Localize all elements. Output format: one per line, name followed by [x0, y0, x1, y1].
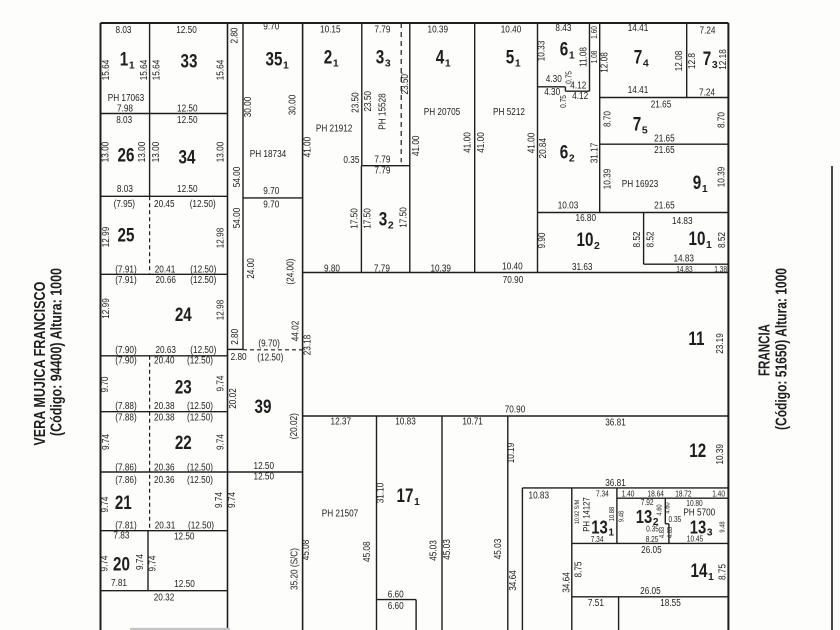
svg-text:13.00: 13.00	[137, 141, 148, 162]
svg-text:20.45: 20.45	[154, 199, 175, 210]
parcels 13 bottom / 14 top line	[572, 542, 729, 544]
svg-text:5: 5	[642, 126, 648, 137]
svg-text:(12.50): (12.50)	[187, 412, 213, 423]
svg-text:20.32: 20.32	[154, 592, 175, 603]
svg-text:10.92 S/M: 10.92 S/M	[574, 500, 581, 524]
svg-text:(12.50): (12.50)	[187, 475, 213, 486]
svg-text:10.03: 10.03	[558, 200, 579, 211]
parcel 6_1 zigzag 0.75 jog	[564, 87, 566, 91]
svg-text:18.55: 18.55	[660, 598, 681, 609]
svg-text:(9.70): (9.70)	[258, 338, 279, 349]
svg-text:12.08: 12.08	[674, 50, 685, 71]
svg-text:21: 21	[115, 493, 132, 514]
parcel 6_1 right edge	[589, 23, 591, 91]
svg-text:(20.02): (20.02)	[289, 413, 300, 439]
svg-text:10.71: 10.71	[462, 416, 483, 427]
svg-text:11: 11	[688, 329, 704, 350]
svg-text:17: 17	[397, 486, 414, 507]
svg-text:(12.50): (12.50)	[190, 275, 216, 286]
svg-text:13.00: 13.00	[216, 141, 227, 162]
parcel 22	[175, 433, 192, 454]
svg-text:14.41: 14.41	[628, 85, 649, 96]
parcel 13_2/13_3 boundary upper	[664, 498, 666, 524]
parcel 10_1 left edge	[643, 213, 645, 265]
svg-text:21.65: 21.65	[654, 134, 675, 145]
parcel 3_3	[376, 48, 391, 70]
svg-text:10.39: 10.39	[717, 166, 728, 187]
svg-text:0.75: 0.75	[559, 95, 568, 108]
svg-text:10.15: 10.15	[320, 25, 341, 36]
svg-text:39: 39	[255, 397, 272, 418]
parcel 34	[179, 148, 196, 169]
parcel 6_1	[560, 40, 575, 62]
parcels 7_4,7_3 bottom line	[600, 97, 729, 99]
svg-text:1: 1	[414, 497, 420, 508]
vertical line x=227.5 column boundary	[227, 23, 229, 630]
svg-text:1: 1	[333, 59, 339, 70]
svg-text:VERA MUJICA FRANCISCO: VERA MUJICA FRANCISCO	[32, 282, 49, 446]
svg-text:9: 9	[693, 173, 702, 194]
svg-text:0.35: 0.35	[343, 155, 359, 166]
notch 6.60 top line	[377, 599, 417, 601]
boundary line parcels 22/21 and 39 bottom	[101, 471, 303, 473]
parcel 6_2	[560, 143, 575, 165]
svg-text:8.03: 8.03	[116, 115, 132, 126]
svg-text:35: 35	[266, 50, 283, 71]
svg-text:4.12: 4.12	[572, 91, 588, 102]
svg-text:35.20 (S/C): 35.20 (S/C)	[290, 548, 301, 590]
svg-text:14.83: 14.83	[672, 216, 693, 227]
svg-text:12.50: 12.50	[174, 532, 195, 543]
svg-text:PH 21507: PH 21507	[322, 509, 359, 520]
svg-text:10.80: 10.80	[686, 499, 703, 508]
vertical line parcels 1/33 col solid	[149, 23, 151, 196]
svg-text:17.50: 17.50	[398, 207, 409, 228]
boundary row line parcel 24 / 23	[101, 355, 228, 357]
svg-text:20.02: 20.02	[228, 388, 239, 409]
svg-text:20.36: 20.36	[154, 475, 175, 486]
parcel 33	[181, 52, 198, 73]
svg-text:8.03: 8.03	[116, 25, 132, 36]
svg-text:4: 4	[643, 59, 649, 70]
svg-text:12.50: 12.50	[177, 115, 198, 126]
svg-text:1: 1	[129, 61, 135, 72]
svg-text:26.05: 26.05	[640, 586, 661, 597]
svg-text:7.79: 7.79	[374, 154, 390, 165]
svg-text:23.50: 23.50	[363, 91, 374, 112]
parcel 7_4/7_3 boundary	[686, 23, 688, 98]
svg-text:34.64: 34.64	[561, 572, 572, 593]
block line 70.90 / parcel 12 top	[303, 415, 729, 417]
svg-text:PH 16923: PH 16923	[622, 179, 659, 190]
parcel 9_1	[693, 173, 708, 195]
svg-text:2: 2	[569, 154, 575, 165]
svg-text:3: 3	[712, 60, 718, 71]
svg-text:10.39: 10.39	[715, 444, 726, 465]
svg-text:12.98: 12.98	[216, 227, 227, 248]
svg-text:10.83: 10.83	[529, 490, 550, 501]
parcel 3_2 left edge	[360, 166, 362, 273]
parcel 11	[688, 329, 704, 350]
svg-text:1.40: 1.40	[622, 490, 635, 499]
parcel 25	[118, 226, 135, 247]
svg-text:12.50: 12.50	[177, 103, 198, 114]
svg-text:41.00: 41.00	[411, 135, 422, 156]
svg-text:5: 5	[506, 48, 515, 69]
svg-text:10.40: 10.40	[502, 262, 523, 273]
svg-text:4.60: 4.60	[664, 502, 671, 513]
svg-text:9.74: 9.74	[227, 492, 238, 508]
svg-text:10.19: 10.19	[506, 442, 517, 463]
svg-text:8.70: 8.70	[603, 111, 614, 127]
svg-text:(12.50): (12.50)	[190, 345, 216, 356]
svg-text:PH 20705: PH 20705	[424, 107, 461, 118]
svg-text:41.00: 41.00	[476, 132, 487, 153]
svg-text:30.00: 30.00	[243, 96, 254, 117]
svg-text:31.63: 31.63	[572, 262, 593, 273]
parcel 7_3	[703, 49, 718, 71]
svg-text:23.50: 23.50	[351, 92, 362, 113]
svg-text:10.88: 10.88	[609, 507, 616, 521]
svg-text:(7.90): (7.90)	[115, 356, 136, 367]
parcel 26	[118, 146, 135, 167]
svg-text:8.03: 8.03	[117, 184, 133, 195]
svg-text:PH 21912: PH 21912	[316, 123, 353, 134]
boundary row line parcel 21 / 20	[101, 530, 228, 532]
svg-text:16.80: 16.80	[576, 213, 597, 224]
parcel 13_3	[690, 517, 713, 539]
parcel 3_2	[379, 210, 394, 232]
svg-text:8.25: 8.25	[646, 535, 659, 544]
svg-text:4: 4	[436, 48, 445, 69]
parcel 12 bottom line	[522, 487, 728, 489]
svg-text:8.52: 8.52	[646, 231, 657, 247]
dashed line 23.50' parcel 3_3	[400, 23, 402, 162]
svg-text:(7.86): (7.86)	[115, 475, 136, 486]
svg-text:2: 2	[653, 517, 659, 528]
svg-text:10.39: 10.39	[603, 168, 614, 189]
parcel 2/3 boundary upper	[361, 23, 363, 166]
svg-text:8.52: 8.52	[632, 231, 643, 247]
svg-text:70.90: 70.90	[505, 405, 526, 416]
svg-text:25: 25	[118, 226, 135, 247]
svg-text:7: 7	[703, 49, 712, 70]
parcel 6_1 zigzag 4.12 segment	[565, 90, 589, 92]
svg-text:2: 2	[388, 221, 394, 232]
parcel 20	[113, 555, 130, 576]
svg-text:13: 13	[636, 506, 653, 527]
svg-text:4.83: 4.83	[659, 527, 666, 538]
svg-text:7.81: 7.81	[111, 578, 127, 589]
svg-text:12.99: 12.99	[101, 298, 112, 319]
boundary parcel 20 bottom	[101, 590, 228, 592]
svg-text:2.80: 2.80	[231, 352, 247, 363]
svg-text:1.40: 1.40	[712, 490, 725, 499]
svg-text:1.60: 1.60	[590, 26, 599, 39]
svg-text:(12.50): (12.50)	[187, 462, 213, 473]
svg-text:7.24: 7.24	[699, 87, 715, 98]
svg-text:20.31: 20.31	[155, 521, 176, 532]
vertical dashed line parcel 25	[149, 196, 151, 274]
svg-text:18.72: 18.72	[675, 490, 692, 499]
svg-text:14: 14	[691, 561, 708, 582]
svg-text:15.64: 15.64	[152, 59, 163, 80]
svg-text:10.33: 10.33	[537, 40, 548, 61]
boundary row line parcel 25 / 24	[101, 273, 228, 275]
svg-text:6: 6	[560, 143, 569, 164]
parcel 3/4 boundary	[409, 23, 411, 273]
svg-text:6.60: 6.60	[388, 601, 404, 612]
svg-text:36.81: 36.81	[605, 478, 626, 489]
svg-text:20.38: 20.38	[154, 401, 175, 412]
svg-text:12.37: 12.37	[331, 416, 352, 427]
svg-text:10.39: 10.39	[428, 25, 449, 36]
svg-text:7.34: 7.34	[596, 490, 609, 499]
svg-text:33: 33	[181, 52, 198, 73]
svg-text:1: 1	[445, 59, 451, 70]
svg-text:2: 2	[594, 241, 600, 252]
svg-text:(7.90): (7.90)	[115, 345, 136, 356]
outer border right (Francia side)	[727, 23, 729, 630]
svg-text:7.51: 7.51	[588, 598, 604, 609]
svg-text:2.80: 2.80	[229, 27, 240, 43]
vertical dashed line parcels 23,22,21	[149, 356, 151, 531]
svg-text:12.8: 12.8	[687, 53, 698, 69]
parcel 6_1 zigzag 4.30 segment	[538, 86, 566, 88]
svg-text:41.00: 41.00	[526, 132, 537, 153]
parcel 16 left edge	[507, 416, 509, 630]
svg-text:3: 3	[376, 48, 385, 69]
svg-text:4.83: 4.83	[667, 527, 674, 538]
svg-text:PH 5212: PH 5212	[493, 107, 525, 118]
svg-text:8.75: 8.75	[717, 564, 728, 580]
svg-text:10.83: 10.83	[395, 416, 416, 427]
svg-text:FRANCIA: FRANCIA	[757, 324, 774, 376]
svg-text:22: 22	[175, 433, 192, 454]
svg-text:(12.50): (12.50)	[190, 199, 216, 210]
svg-text:7.98: 7.98	[117, 103, 133, 114]
parcel 21	[115, 493, 132, 514]
dashed line (9.70) parcel 39 top	[243, 349, 303, 351]
svg-text:15.64: 15.64	[101, 59, 112, 80]
svg-text:20.63: 20.63	[155, 345, 176, 356]
svg-text:12.98: 12.98	[216, 299, 227, 320]
parcel 13_2/13_3 boundary lower	[668, 524, 670, 544]
parcel 13_1/13_2 boundary	[616, 488, 618, 544]
svg-text:14.41: 14.41	[628, 23, 649, 34]
svg-text:7.79: 7.79	[374, 25, 390, 36]
svg-text:9.74: 9.74	[214, 492, 225, 508]
parcels 6_2, 9_1 bottom line	[538, 212, 729, 214]
svg-text:8.43: 8.43	[555, 23, 571, 34]
boundary row line parcel 23 / 22	[101, 411, 228, 413]
svg-text:4.30: 4.30	[546, 74, 562, 85]
svg-text:20.38: 20.38	[154, 412, 175, 423]
parcel 10_1	[689, 229, 712, 251]
svg-text:3: 3	[379, 210, 388, 231]
parcel 39	[255, 397, 272, 418]
svg-text:12.99: 12.99	[101, 226, 112, 247]
svg-text:(7.86): (7.86)	[115, 462, 136, 473]
svg-text:13.00: 13.00	[151, 141, 162, 162]
svg-text:1.08: 1.08	[590, 50, 599, 63]
svg-text:7.79: 7.79	[374, 263, 390, 274]
svg-text:54.00: 54.00	[232, 166, 243, 187]
svg-text:1: 1	[569, 51, 575, 62]
parcel 5/6 boundary	[537, 23, 539, 273]
svg-text:(7.91): (7.91)	[115, 264, 136, 275]
vertical line parcel 20 right edge	[147, 531, 149, 591]
svg-text:17.50: 17.50	[350, 208, 361, 229]
svg-text:(7.88): (7.88)	[115, 412, 136, 423]
svg-text:14.83: 14.83	[673, 253, 694, 264]
svg-text:13: 13	[591, 517, 608, 538]
svg-text:1: 1	[708, 572, 714, 583]
svg-text:(7.91): (7.91)	[115, 275, 136, 286]
svg-text:45.08: 45.08	[362, 541, 373, 562]
outer border top	[101, 22, 729, 24]
svg-text:36.81: 36.81	[605, 417, 626, 428]
svg-text:30.00: 30.00	[288, 94, 299, 115]
svg-text:20: 20	[113, 555, 130, 576]
parcel 13_2	[636, 506, 659, 528]
svg-text:0.35: 0.35	[669, 515, 682, 524]
svg-text:12.08: 12.08	[600, 52, 611, 73]
svg-text:3: 3	[707, 527, 713, 538]
svg-text:(7.88): (7.88)	[115, 401, 136, 412]
svg-text:9.90: 9.90	[537, 232, 548, 248]
strip 1.60 right edge / 6_2 right edge	[599, 23, 601, 213]
svg-text:(12.50): (12.50)	[187, 356, 213, 367]
svg-text:21.65: 21.65	[651, 99, 672, 110]
svg-text:20.66: 20.66	[155, 275, 176, 286]
parcel 12	[689, 441, 706, 462]
parcel 24	[175, 305, 192, 326]
svg-text:2.80: 2.80	[230, 328, 241, 344]
svg-text:34.64: 34.64	[508, 570, 519, 591]
svg-text:11.08: 11.08	[579, 47, 590, 67]
svg-text:(Código: 94400) Altura: 1000: (Código: 94400) Altura: 1000	[49, 268, 66, 436]
boundary row line parcels 26,34 / 25	[101, 195, 228, 197]
parcel 3_2 top line 7.79	[361, 165, 409, 167]
svg-text:1: 1	[702, 184, 708, 195]
svg-text:4.12: 4.12	[570, 81, 586, 92]
svg-text:(12.50): (12.50)	[190, 264, 216, 275]
parcel 5_1	[506, 48, 521, 70]
svg-text:45.03: 45.03	[493, 538, 504, 559]
bottom parcels 7.51/18.55 divider	[618, 597, 620, 630]
svg-text:7.79: 7.79	[374, 166, 390, 177]
svg-text:3: 3	[385, 59, 391, 70]
svg-text:31.17: 31.17	[590, 142, 601, 163]
svg-text:15.64: 15.64	[139, 59, 150, 80]
svg-text:17.50: 17.50	[363, 208, 374, 229]
svg-text:8.70: 8.70	[717, 112, 728, 128]
svg-text:26: 26	[118, 146, 135, 167]
svg-text:21.65: 21.65	[654, 200, 675, 211]
svg-text:1: 1	[608, 527, 614, 538]
svg-text:23: 23	[175, 378, 192, 399]
svg-text:8.52: 8.52	[717, 232, 728, 248]
svg-text:1.38: 1.38	[714, 265, 727, 274]
svg-text:6.60: 6.60	[388, 589, 404, 600]
parcels 13_2,13_3 top line	[617, 497, 729, 499]
block south line 70.90	[303, 272, 729, 274]
boundary row line parcels 1,33 / 26,34	[101, 113, 228, 115]
parcel 17 right edge	[441, 416, 443, 630]
svg-text:9.74: 9.74	[100, 555, 111, 571]
parcel 35 bottom line 9.70	[243, 197, 303, 199]
svg-text:4.60: 4.60	[657, 504, 664, 515]
vertical line strip 2.80 right edge	[242, 23, 244, 349]
vertical line x=571.8 parcel 13/14 left	[571, 488, 573, 630]
parcel 13_2/13_3 jog 0.35	[665, 523, 669, 525]
parcel 2_1	[324, 48, 339, 70]
svg-text:9.48: 9.48	[619, 511, 626, 522]
svg-text:23.19: 23.19	[715, 333, 726, 354]
parcel 14_1	[691, 561, 714, 583]
parcel 4/5 boundary	[474, 23, 476, 273]
svg-text:10: 10	[577, 230, 594, 251]
svg-text:9.48: 9.48	[719, 521, 726, 532]
svg-text:9.80: 9.80	[324, 263, 340, 274]
svg-text:44.02: 44.02	[291, 320, 302, 341]
svg-text:9.74: 9.74	[216, 434, 227, 450]
scan page edge right	[831, 166, 833, 630]
svg-text:9.74: 9.74	[148, 555, 159, 571]
svg-text:10.40: 10.40	[501, 25, 522, 36]
svg-text:23.18: 23.18	[302, 334, 313, 355]
svg-text:9.70: 9.70	[263, 186, 279, 197]
svg-text:20.84: 20.84	[538, 138, 549, 159]
svg-text:1: 1	[706, 240, 712, 251]
svg-text:12.50: 12.50	[254, 461, 275, 472]
svg-text:54.00: 54.00	[232, 207, 243, 228]
svg-text:9.70: 9.70	[263, 22, 279, 33]
svg-text:45.08: 45.08	[301, 539, 312, 560]
svg-text:10.39: 10.39	[430, 263, 451, 274]
parcel 1_1	[120, 50, 135, 72]
svg-text:7.24: 7.24	[700, 26, 716, 37]
svg-text:(12.50): (12.50)	[187, 401, 213, 412]
svg-text:(7.95): (7.95)	[114, 199, 135, 210]
faint cut-off mark bottom edge	[130, 628, 230, 630]
svg-text:41.00: 41.00	[463, 132, 474, 153]
svg-text:1: 1	[120, 50, 129, 71]
svg-text:34: 34	[179, 148, 196, 169]
svg-text:9.74: 9.74	[100, 496, 111, 512]
svg-text:7: 7	[634, 48, 643, 69]
svg-text:20.41: 20.41	[155, 264, 176, 275]
strip bottom segment near parcel 39	[228, 348, 244, 350]
svg-text:14.83: 14.83	[676, 265, 693, 274]
parcel 7_5	[633, 115, 648, 137]
svg-text:24.00: 24.00	[246, 258, 257, 279]
svg-text:6: 6	[560, 40, 569, 61]
svg-text:7.83: 7.83	[113, 530, 129, 541]
parcel 4_1	[436, 48, 451, 70]
notch 6.60 right edge	[415, 600, 417, 630]
parcel 7_4	[634, 48, 649, 70]
svg-text:15.64: 15.64	[216, 59, 227, 80]
parcel 17_1	[397, 486, 420, 508]
svg-text:26.05: 26.05	[641, 545, 662, 556]
svg-text:41.00: 41.00	[303, 136, 314, 157]
svg-text:PH 18734: PH 18734	[250, 149, 287, 160]
svg-text:12: 12	[689, 441, 706, 462]
svg-text:(24.00): (24.00)	[286, 259, 297, 285]
outer border left (Vera Mujica side)	[100, 23, 102, 630]
